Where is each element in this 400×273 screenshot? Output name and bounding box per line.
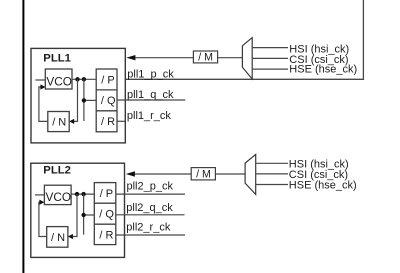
divider /N (PLL1)	[48, 112, 69, 132]
svg-text:/ M: / M	[198, 51, 213, 63]
junction dot A2	[75, 192, 79, 196]
divider stack /P /Q /R (PLL1)	[96, 69, 117, 132]
mux clock source select (PLL1)	[242, 38, 252, 79]
svg-text:/ Q: / Q	[101, 95, 116, 107]
svg-text:PLL1: PLL1	[43, 53, 71, 65]
svg-text:pll2_r_ck: pll2_r_ck	[126, 222, 171, 234]
wire HSE input (PLL1 mux)	[252, 68, 288, 70]
label PLL1	[43, 53, 71, 65]
wire HSI input (PLL2 mux)	[256, 162, 288, 164]
net label CSI (csi_ck)	[289, 54, 348, 66]
junction dot B1	[82, 77, 86, 81]
svg-text:VCO: VCO	[46, 190, 72, 204]
svg-text:pll1_r_ck: pll1_r_ck	[127, 110, 172, 122]
svg-text:/ M: / M	[196, 168, 211, 180]
junction dot A1	[75, 77, 79, 81]
wire VCO1 input stub	[35, 79, 45, 81]
junction dot C1	[82, 98, 86, 102]
net label pll1_p_ck	[127, 68, 174, 80]
svg-text:/ Q: / Q	[99, 209, 114, 221]
mux clock source select (PLL2)	[245, 154, 256, 194]
svg-text:PLL2: PLL2	[43, 165, 71, 177]
svg-text:HSE (hse_ck): HSE (hse_ck)	[289, 179, 357, 191]
oscillator VCO (PLL1)	[45, 69, 72, 89]
wire pll2_p_ck net	[116, 193, 185, 195]
svg-text:pll2_p_ck: pll2_p_ck	[127, 181, 174, 193]
wire CSI input (PLL2 mux)	[256, 173, 288, 175]
divider stack /P /Q /R (PLL2)	[94, 183, 116, 245]
net label HSI (hsi_ck) PLL2	[289, 158, 349, 170]
net label HSE (hse_ck)	[289, 64, 357, 76]
wire feedback to /N (PLL1)	[69, 79, 77, 124]
wire HSI input (PLL1 mux)	[252, 47, 288, 49]
wire HSE input (PLL2 mux)	[256, 184, 288, 186]
svg-text:HSE (hse_ck): HSE (hse_ck)	[289, 64, 357, 76]
net label pll1_r_ck	[127, 110, 172, 122]
junction dot B2	[81, 192, 85, 196]
net label pll2_r_ck	[126, 222, 171, 234]
wire pll2_q_ck net	[116, 214, 185, 216]
PLL2 block U2	[31, 163, 125, 257]
wire pll1_p_ck net routed up right side	[117, 0, 363, 79]
wire VCO2 input stub	[35, 194, 44, 196]
wire /N output feedback to VCO (PLL1)	[39, 84, 48, 121]
divider /N (PLL2)	[47, 227, 68, 248]
wire pll1_q_ck net	[117, 99, 185, 101]
svg-text:/ P: / P	[101, 74, 114, 86]
junction dot C2	[81, 213, 85, 217]
svg-text:pll1_q_ck: pll1_q_ck	[127, 89, 174, 101]
net label pll2_p_ck	[127, 181, 174, 193]
wire pll2_r_ck net	[116, 234, 185, 236]
oscillator VCO (PLL2)	[44, 185, 71, 204]
label PLL2	[43, 165, 71, 177]
divider /M (PLL1)	[193, 51, 217, 63]
net label HSI (hsi_ck)	[289, 44, 349, 56]
wire crop border left	[22, 0, 24, 273]
wire branch to /Q and stub (PLL1)	[84, 79, 96, 121]
net label pll2_q_ck	[126, 202, 173, 214]
wire /M2 to mux output	[215, 173, 245, 175]
wire /N output feedback to VCO (PLL2)	[39, 200, 47, 237]
svg-text:/ N: / N	[52, 117, 66, 129]
svg-text:VCO: VCO	[46, 75, 72, 89]
wire ref clock into PLL2 with arrowhead	[126, 171, 192, 176]
divider /M (PLL2)	[191, 168, 215, 181]
svg-text:pll2_q_ck: pll2_q_ck	[126, 202, 173, 214]
net label CSI (csi_ck) PLL2	[289, 169, 348, 181]
svg-text:/ R: / R	[101, 116, 115, 128]
wire VCO2 output to /P	[71, 193, 94, 195]
PLL1 block U1	[31, 48, 125, 142]
svg-text:/ N: / N	[51, 232, 65, 244]
wire /R1 stub to box edge	[117, 120, 125, 122]
wire /M1 to mux output	[218, 57, 243, 59]
svg-text:/ R: / R	[99, 229, 113, 241]
svg-text:/ P: / P	[100, 188, 113, 200]
wire CSI input (PLL1 mux)	[252, 57, 288, 59]
svg-text:pll1_p_ck: pll1_p_ck	[127, 68, 174, 80]
wire VCO1 output to /P	[72, 78, 96, 80]
wire branch to /Q and stub (PLL2)	[84, 194, 95, 235]
wire feedback to /N (PLL2)	[68, 194, 77, 239]
net label pll1_q_ck	[127, 89, 174, 101]
wire ref clock into PLL1 with arrowhead	[126, 55, 193, 60]
net label HSE (hse_ck) PLL2	[289, 179, 357, 191]
